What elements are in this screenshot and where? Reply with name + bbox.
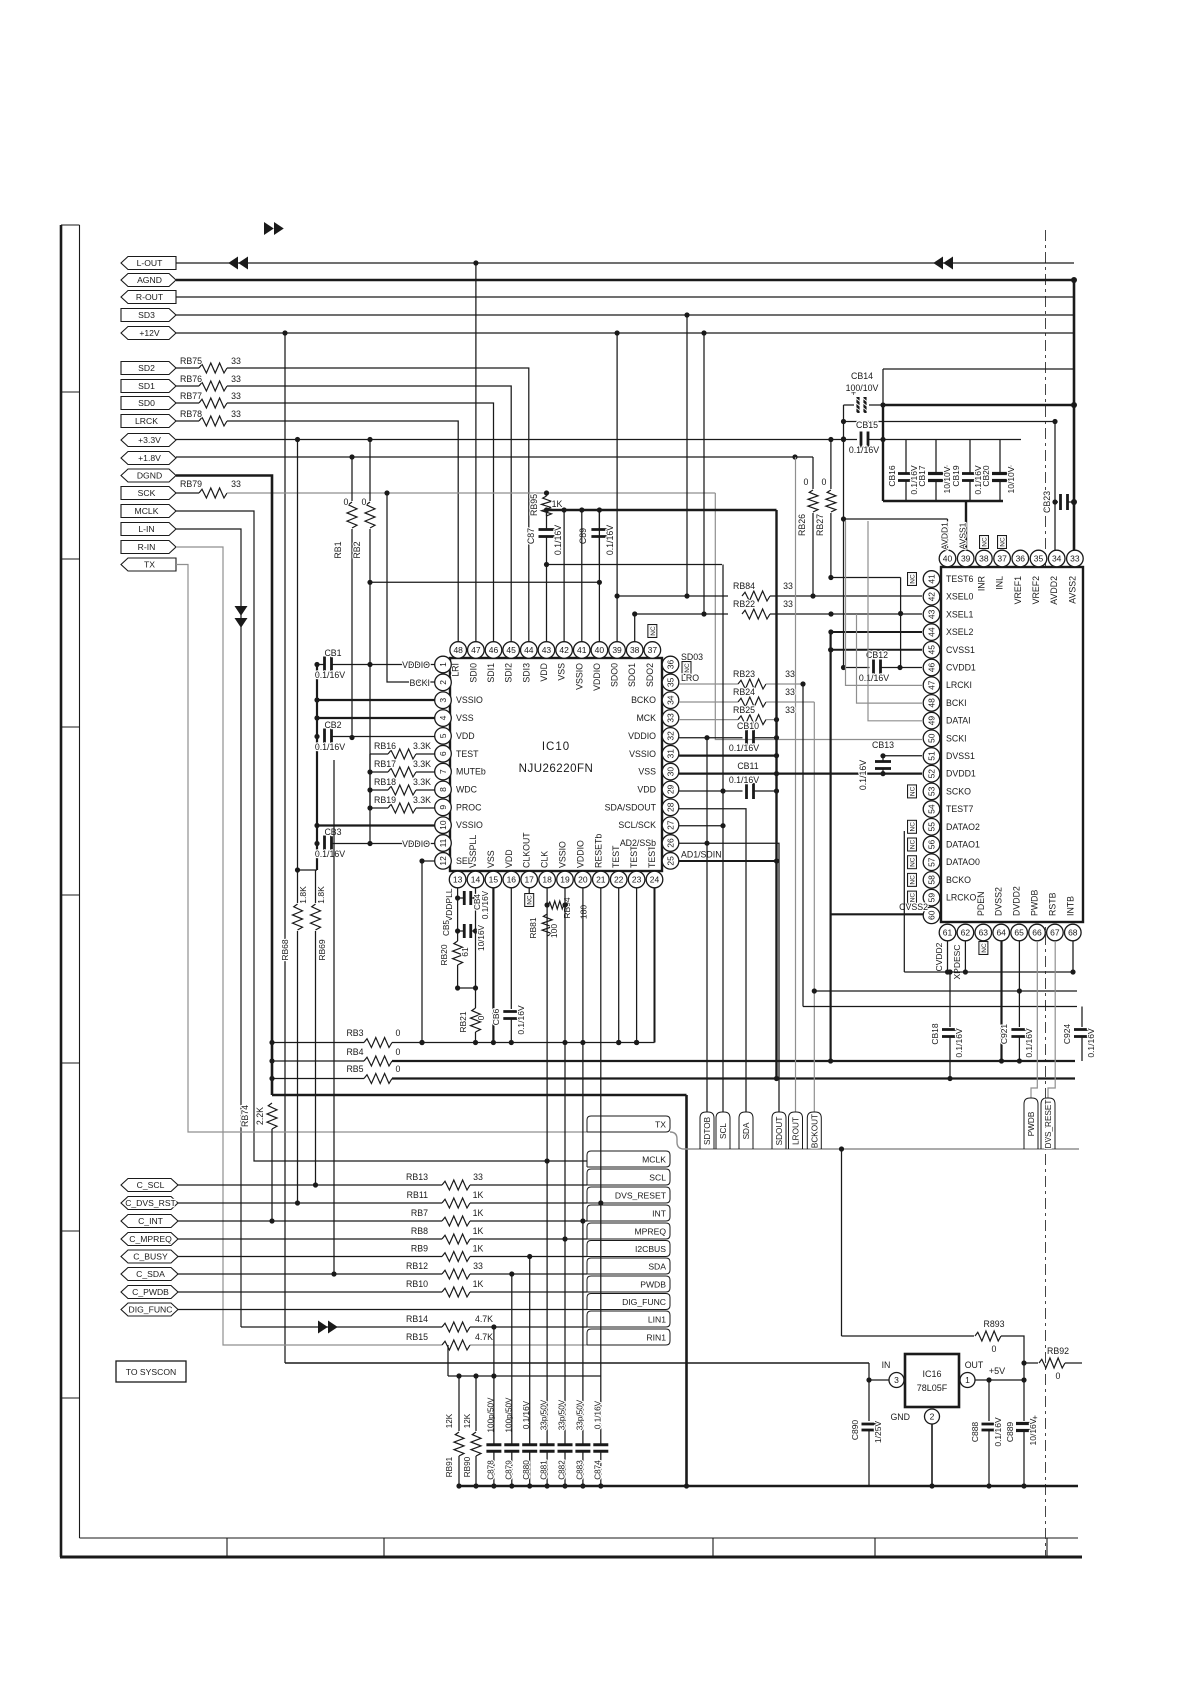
svg-text:CB5: CB5 [442,920,451,936]
resistor RB5 0 (thick row) [269,1076,274,1081]
capacitor CB18 0.1/16V [949,972,951,1027]
svg-text:33: 33 [785,705,795,715]
capacitor C882 33p/50V [558,1443,573,1446]
svg-text:R-IN: R-IN [138,542,156,552]
svg-text:CB17: CB17 [917,465,927,487]
svg-text:11: 11 [438,838,448,847]
svg-text:TEST7: TEST7 [946,804,973,814]
capacitor C921 0.1/16V [1018,991,1020,1027]
node bus tab SDTOB [700,1112,714,1149]
svg-text:78L05F: 78L05F [917,1383,948,1393]
wire AVDD2 feed segment [844,421,1056,423]
svg-text:BCKOUT: BCKOUT [810,1114,819,1148]
svg-text:12: 12 [438,856,448,866]
svg-text:RB76: RB76 [180,374,202,384]
svg-text:VDDIO: VDDIO [575,840,585,868]
svg-text:INR: INR [976,576,986,591]
svg-text:+1.8V: +1.8V [138,453,161,463]
svg-text:SDI1: SDI1 [486,663,496,683]
wire pin68 drop [1072,941,1074,972]
svg-text:IN: IN [882,1360,891,1370]
IC10 pin 23 (TEST) [628,871,645,888]
svg-text:0.1/16V: 0.1/16V [859,673,889,683]
wire L-OUT drop to pin47 column [475,263,477,642]
wire RB78 output run to IC10 column [227,421,458,642]
connector pin 38 [976,550,993,567]
svg-text:+5V: +5V [989,1366,1005,1376]
capacitor C890 1/25V [868,1380,870,1421]
svg-text:33: 33 [785,669,795,679]
IC10 pin 15 (VSS) [485,871,502,888]
svg-text:RB26: RB26 [797,514,807,536]
svg-text:33: 33 [1070,554,1080,564]
resistor RB90 12K (vertical) [475,1376,477,1431]
svg-text:64: 64 [996,928,1006,938]
svg-text:SD03: SD03 [681,652,703,662]
capacitor C879 100p/50V [504,1443,519,1446]
svg-text:VDDPLL: VDDPLL [444,888,454,921]
svg-text:RB17: RB17 [374,759,396,769]
svg-text:LIN1: LIN1 [648,1315,666,1325]
svg-text:NC: NC [527,895,534,905]
svg-text:0.1/16V: 0.1/16V [858,760,868,790]
page border bottom inner line [80,1537,1079,1539]
svg-text:SDI3: SDI3 [521,663,531,683]
wire VSSIO pin31 row thick [679,754,777,756]
wire XSEL1 row with RB22 [632,611,637,616]
svg-text:0: 0 [1056,1371,1061,1381]
svg-text:MCLK: MCLK [642,1155,666,1165]
connector pin 45 (CVSS1) [923,642,940,659]
resistor RB77 33 [176,402,199,404]
svg-text:XPDESC: XPDESC [952,945,962,980]
wire RB76 output run to IC10 column [227,386,511,642]
svg-text:CVSS1: CVSS1 [946,645,975,655]
svg-text:0.1/16V: 0.1/16V [849,445,879,455]
svg-text:C_INT: C_INT [138,1216,164,1226]
svg-text:47: 47 [471,645,481,655]
svg-text:IC16: IC16 [922,1369,941,1379]
svg-text:62: 62 [961,928,971,938]
resistor RB13 33 [178,1184,442,1186]
svg-text:33: 33 [783,581,793,591]
svg-text:SCKI: SCKI [946,733,967,743]
signal flag L-IN [121,523,176,536]
svg-text:TEST: TEST [611,845,621,868]
svg-text:+12V: +12V [139,328,160,338]
wire regulator feed row [285,1362,869,1364]
svg-text:RB74: RB74 [240,1105,250,1127]
svg-text:7: 7 [438,769,448,774]
connector pin 37 [994,550,1011,567]
svg-text:TEST6: TEST6 [946,574,973,584]
wire ground rail (thick) [459,1485,1078,1488]
resistor RB26 0 (vertical, +1.8V to XSEL0 row) [812,457,814,489]
wire CB14 to AGND (thick) [883,404,1074,406]
resistor RB79 33 on SCK [176,492,199,494]
svg-text:C890: C890 [850,1420,860,1441]
signal flag LRCK [121,415,176,428]
IC10 pin 37 (SDO2) [644,642,661,659]
capacitor CB6 0.1/16V [503,1010,519,1013]
node tab TX [587,1116,670,1132]
wire CVDD2 row below connector [904,971,1073,973]
svg-text:CB15: CB15 [856,420,878,430]
connector pin 52 (DVDD1) [923,765,940,782]
svg-text:INTB: INTB [1065,896,1075,916]
svg-text:C881: C881 [540,1460,549,1480]
wire pin23 column [636,888,638,1043]
wire pin62 drop [964,941,966,972]
wire BCKI feed [857,614,923,703]
wire C879 from SDA row [511,1274,513,1445]
svg-text:VDD: VDD [539,663,549,682]
svg-text:XSEL0: XSEL0 [946,592,973,602]
signal flag +1.8V [121,452,176,465]
resistor RB74 2.2K (vertical DGND to INT) [267,1103,277,1129]
IC10 pin 48 (LRI) [450,642,467,659]
wire pin64 DVSS2 drop (thick) [1000,941,1002,1061]
svg-text:VSSIO: VSSIO [456,820,483,830]
connector pin38 NC box [980,536,989,549]
node tab RIN1 [587,1329,670,1345]
svg-text:VDDIO: VDDIO [402,839,430,849]
svg-text:PWDB: PWDB [1027,1111,1036,1136]
svg-text:CB6: CB6 [491,1008,501,1025]
wire SDA/SDOUT pin28 to SDA drop [679,809,746,1112]
svg-text:46: 46 [927,663,937,673]
svg-text:CVDD1: CVDD1 [946,663,976,673]
wire XSEL2 row [831,631,922,633]
wire pin16 column with CB6 [510,888,512,1009]
junction dots bottom rows [313,1182,318,1187]
wire pin13-14 bottom tie [458,987,476,989]
capacitor CB4 0.1/16V [458,897,464,899]
wire R893 riser [841,1149,843,1336]
svg-text:SDA/SDOUT: SDA/SDOUT [605,802,657,812]
svg-text:TEST: TEST [456,749,479,759]
signal flag SD2 [121,362,176,375]
IC10 pin 46 (SDI1) [485,642,502,659]
resistor RB94 180 (horizontal) [548,901,564,909]
IC10 pin 5 (VDD) [435,728,452,745]
svg-text:AVDD2: AVDD2 [1049,576,1059,605]
wire R-OUT net [176,296,1074,298]
svg-text:25: 25 [666,856,676,866]
svg-text:SCL: SCL [649,1173,666,1183]
wire vertical x334 [333,760,335,1274]
wire digital bus horizontal [684,1148,1079,1150]
IC10 pin 41 (VSSIO) [573,642,590,659]
wire pin65 drop [1018,941,1020,991]
wire L-IN to LIN1 row [241,1326,442,1328]
IC10 pin 16 (VDD) [503,871,520,888]
svg-text:44: 44 [927,627,937,637]
node bus tab PWDB [1024,1098,1038,1149]
resistor R893 0 [842,1335,975,1337]
svg-text:DVSS2: DVSS2 [994,887,1004,916]
svg-text:35: 35 [666,677,676,687]
connector pin 68 [1065,924,1082,941]
capacitor CB2 0.1/16V [323,729,326,745]
svg-text:C889: C889 [1005,1422,1015,1443]
svg-text:0.1/16V: 0.1/16V [1024,1028,1034,1058]
connector pin 60 (CVSS2) [923,907,940,924]
IC10 pin 7 (MUTEb) [435,763,452,780]
svg-text:0: 0 [396,1047,401,1057]
signal flag AGND [121,274,176,287]
svg-text:RB27: RB27 [815,514,825,536]
svg-text:LRCK: LRCK [135,416,158,426]
svg-text:BCKI: BCKI [946,698,967,708]
wire SCK drop and SCKI run [715,493,922,740]
wire pin2 BCKI feed [387,493,435,682]
svg-text:NC: NC [982,537,989,547]
wire DATAI feed [868,521,922,721]
wire pin15 column (thick) [492,888,494,1043]
svg-text:33p/50V: 33p/50V [575,1399,584,1430]
svg-text:+3.3V: +3.3V [138,435,161,445]
wire channel vertical x687 (SD3 to XSEL0) [686,315,688,596]
resistor RB8 1K [178,1238,442,1240]
svg-text:NC: NC [981,943,988,953]
connector pin 39 [957,550,974,567]
wire cluster top rail [883,439,1021,441]
svg-text:INL: INL [995,576,1005,590]
wire +5V output node [975,1379,1024,1381]
wire CVSS2 row (thick) [831,913,923,915]
svg-text:NJU26220FN: NJU26220FN [519,763,594,775]
resistor RB27 0 (vertical, +3.3V column) [830,440,832,490]
wire RB77 output run to IC10 column [227,403,494,642]
svg-text:67: 67 [1050,928,1060,938]
svg-text:IC10: IC10 [542,741,570,753]
svg-text:RB5: RB5 [346,1064,363,1074]
IC10 pin 34 (BCKO) [662,692,679,709]
svg-text:C924: C924 [1062,1024,1072,1045]
junction +12V to regulator feed [282,330,287,335]
svg-text:16: 16 [507,875,517,885]
svg-text:36: 36 [666,660,676,670]
svg-text:45: 45 [927,645,937,655]
node bus tab SCL [716,1112,730,1149]
wire CVSS1 row [831,649,922,651]
IC10 pin 30 (VSS) [662,763,679,780]
signal flag R-IN [121,541,176,554]
svg-text:DVSS1: DVSS1 [946,751,975,761]
svg-text:LROUT: LROUT [792,1117,801,1145]
svg-text:RB81: RB81 [528,917,538,939]
signal flag C_BUSY [121,1250,178,1263]
wire VSS pin4 row (thick) [317,717,435,719]
IC10 pin 3 (VSSIO) [435,692,452,709]
svg-text:RB7: RB7 [411,1208,428,1218]
svg-text:1: 1 [965,1375,970,1385]
svg-text:AD2/SSb: AD2/SSb [620,838,656,848]
resistor RB9 1K [178,1256,442,1258]
wire AVDD2 drop to pin34 [1054,422,1056,552]
wire AD1/SDIN pin25 row (thick) [679,860,777,862]
node bus tab SDOUT [772,1112,786,1149]
svg-text:RB94: RB94 [562,897,572,919]
wire pin14 column [475,888,477,1008]
wire row 991 [814,990,1077,992]
wire RB16-19 common vertical [369,754,371,808]
svg-text:1K: 1K [473,1208,484,1218]
signal flag DGND [121,469,176,482]
svg-text:CB13: CB13 [872,740,894,750]
svg-text:C878: C878 [486,1460,495,1480]
svg-text:AVSS1: AVSS1 [958,522,968,549]
IC10 pin 17 (CLKOUT) [521,871,538,888]
svg-text:RB4: RB4 [346,1047,363,1057]
svg-text:33: 33 [473,1172,483,1182]
svg-text:C888: C888 [970,1422,980,1443]
connector pin 59 (LRCKO) [923,889,940,906]
signal flag +12V [121,327,176,340]
IC10 pin 45 (SDI2) [503,642,520,659]
op-amp IC10 NJU26220FN body [450,658,662,871]
connector pin 56 (DATAO1) [923,836,940,853]
page border ruler ticks bottom [226,1538,228,1557]
svg-text:AGND: AGND [137,275,162,285]
svg-text:GND: GND [890,1412,910,1422]
svg-text:VDD: VDD [504,849,514,868]
wire TEST6 row [831,577,901,579]
svg-text:TX: TX [144,560,155,570]
svg-text:34: 34 [1052,554,1062,564]
wire cluster AVDD1 branch row [844,518,948,520]
arrow double-down on L-IN drop [235,606,248,616]
wire bypass rail left of IC10 (thick) [316,665,318,871]
svg-text:VSS: VSS [638,767,656,777]
wire VSS pin30 row thick to DVDD1 [679,772,922,774]
svg-text:RB20: RB20 [439,944,449,966]
svg-text:4.7K: 4.7K [475,1314,493,1324]
connector pin 46 (CVDD1) [923,659,940,676]
svg-text:0: 0 [362,497,367,507]
svg-text:XSEL1: XSEL1 [946,609,973,619]
svg-text:29: 29 [666,784,676,794]
wire AVSS1 drop (thick) [965,501,967,551]
page border ruler ticks left [61,224,80,226]
svg-text:DVDD2: DVDD2 [1012,886,1022,916]
svg-text:TO SYSCON: TO SYSCON [126,1367,176,1377]
svg-text:33: 33 [473,1261,483,1271]
svg-text:CB19: CB19 [951,465,961,487]
wire pin66 PWDB drop to tab [1031,941,1037,1098]
connector pin 53 (SCKO) [923,783,940,800]
connector pin 62 [957,924,974,941]
capacitor C89 0.1/16V [598,510,600,530]
resistor RB12 33 [178,1273,442,1275]
wire VDD rail row (thick) [546,510,548,516]
svg-text:NC: NC [910,857,917,867]
wire pin22 column [618,888,620,1043]
capacitor CB13 0.1/16V between DVSS1/DVDD1 [883,755,922,757]
svg-text:18: 18 [542,875,552,885]
wire C878 from LIN1 row [493,1327,495,1445]
svg-text:100: 100 [549,924,559,938]
wire BCKO row with RB24 to BCKOUT drop [679,701,738,703]
wire vertical x904 [903,831,905,972]
svg-text:47: 47 [927,680,937,690]
svg-text:NC: NC [684,663,691,673]
svg-text:LRO: LRO [681,673,699,683]
wire AVDD node vertical x843.5 [843,405,845,668]
connector pin 64 [993,924,1010,941]
svg-text:WDC: WDC [456,784,478,794]
node tab INT [587,1205,670,1221]
svg-text:33: 33 [231,374,241,384]
svg-text:NC: NC [910,822,917,832]
svg-text:0: 0 [992,1344,997,1354]
svg-text:RB78: RB78 [180,409,202,419]
capacitor CB15 0.1/16V [860,432,863,448]
svg-text:40: 40 [595,645,605,655]
wire VSSIO pin3 row (thick) [317,699,435,701]
node tab MCLK [587,1151,670,1167]
svg-text:BCKI: BCKI [409,678,430,688]
svg-text:NC: NC [910,574,917,584]
svg-text:RB84: RB84 [733,581,755,591]
svg-text:68: 68 [1068,928,1078,938]
connector pin 57 (DATAO0) [923,854,940,871]
svg-text:DATAO1: DATAO1 [946,840,980,850]
signal flag +3.3V [121,434,176,447]
node tab LIN1 [587,1311,670,1327]
svg-text:CB1: CB1 [324,648,341,658]
svg-text:49: 49 [927,716,937,726]
wire DIG_FUNC row [178,1309,587,1311]
wire R-IN drop and RIN1 row [176,547,442,1345]
signal flag C_PWDB [121,1286,178,1299]
svg-text:1K: 1K [473,1279,484,1289]
svg-text:1K: 1K [552,499,563,509]
svg-text:RB13: RB13 [406,1172,428,1182]
svg-text:VDD: VDD [637,784,656,794]
wire SD3 net [176,314,1074,316]
signal flag C_DVS_RST [121,1197,178,1210]
capacitor C883 33p/50V [575,1443,590,1446]
svg-text:0: 0 [396,1028,401,1038]
svg-text:33p/50V: 33p/50V [540,1399,549,1430]
svg-text:SDA: SDA [742,1122,751,1139]
IC10 pin 9 (PROC) [435,799,452,816]
svg-text:RB16: RB16 [374,741,396,751]
wire pin40 column [598,510,600,642]
svg-text:28: 28 [666,802,676,812]
wire pin13 column VDDPLL [457,888,459,941]
NC box above pin37 [648,625,657,638]
resistor RB14 4.7K on LIN1 [442,1322,470,1332]
svg-text:24: 24 [650,875,660,885]
svg-text:C_SCL: C_SCL [137,1180,165,1190]
capacitor CB17 10/10V (electrolytic) [935,439,937,474]
svg-text:3: 3 [894,1375,899,1385]
svg-text:SDO1: SDO1 [627,663,637,687]
connector pin 41 (TEST6) [923,571,940,588]
svg-text:0.1/16V: 0.1/16V [315,670,345,680]
svg-text:0: 0 [396,1064,401,1074]
signal flag C_SDA [121,1268,178,1281]
svg-text:CB20: CB20 [981,465,991,487]
svg-text:C882: C882 [558,1460,567,1480]
svg-text:0.1/16V: 0.1/16V [605,525,615,555]
svg-text:VDDIO: VDDIO [402,660,430,670]
svg-text:13: 13 [453,875,463,885]
wire C880 from I2CBUS row [529,1257,531,1446]
